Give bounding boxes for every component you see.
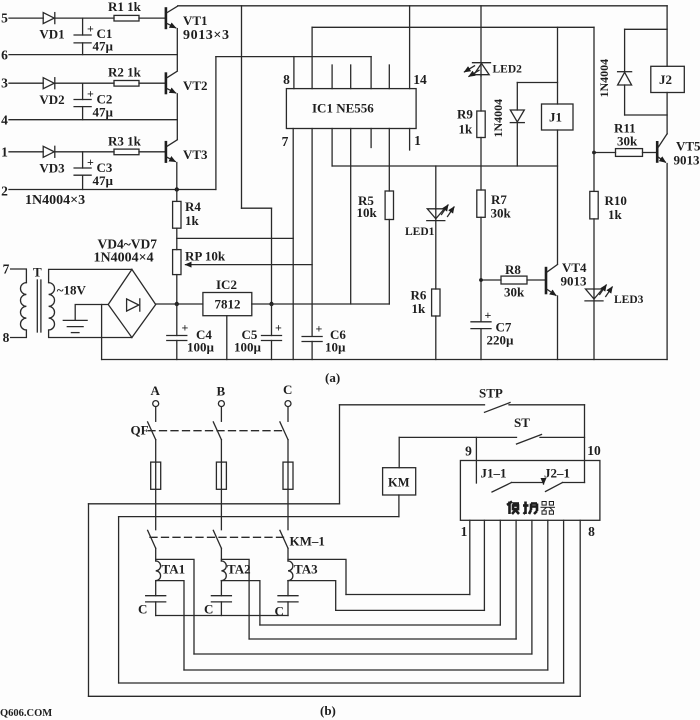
wire row3 input: [9, 82, 43, 84]
switch STP: [340, 386, 585, 413]
wire phase C to TA3: [287, 548, 289, 561]
svg-text:Q606.COM: Q606.COM: [0, 708, 52, 719]
svg-text:9013: 9013: [561, 274, 588, 289]
svg-text:9013: 9013: [674, 153, 700, 168]
wire bridge left to ground: [75, 305, 108, 320]
fuse FU B: [216, 462, 226, 489]
wire IC2 output +12V: [252, 303, 389, 305]
capacitor C6: [302, 322, 346, 360]
svg-text:C: C: [138, 602, 147, 617]
wire J2 bottom: [666, 93, 668, 134]
svg-text:VD2: VD2: [39, 92, 64, 107]
svg-text:TA3: TA3: [294, 562, 318, 577]
wire row1 input: [9, 151, 43, 153]
resistor R7: [477, 190, 512, 322]
svg-text:1N4004×4: 1N4004×4: [94, 251, 154, 266]
svg-text:TA1: TA1: [162, 562, 186, 577]
wire bridge output to IC2: [156, 303, 203, 305]
wire VT3 emitter down: [176, 163, 178, 190]
contactor coil KM box: [383, 468, 416, 495]
wire TA1 bottom tap to pin6: [184, 669, 548, 671]
contact KM-1 dashed link: [150, 536, 288, 538]
svg-text:7: 7: [282, 134, 289, 149]
wire phase C upper: [287, 407, 289, 422]
wire row2 riser to y56: [215, 57, 217, 190]
LED LED1: [405, 205, 454, 289]
svg-text:14: 14: [413, 72, 427, 87]
node A terminal: [151, 383, 161, 407]
wire IC1 bottom pin f to R5: [388, 129, 390, 192]
wire phase A to fuse: [155, 440, 157, 462]
svg-text:3: 3: [1, 76, 8, 91]
wire row5 input: [9, 17, 43, 19]
capacitor C phase C: [275, 581, 299, 619]
svg-text:1k: 1k: [412, 301, 427, 316]
svg-text:VD4~VD7: VD4~VD7: [98, 237, 158, 252]
wire TA3 bottom tap to pin2: [336, 609, 485, 611]
diode VD8 J1 parallel: [510, 83, 524, 167]
svg-text:+: +: [87, 22, 94, 36]
wire R4 bottom to IC1 pin: [177, 237, 293, 239]
svg-text:+: +: [87, 87, 94, 101]
wire J2 diode bottom connector: [625, 114, 668, 116]
wire y56 horizontal to IC1: [216, 56, 371, 58]
svg-text:220µ: 220µ: [487, 333, 515, 348]
wire KM coil bottom: [398, 495, 400, 517]
transistor VT2: [166, 71, 208, 94]
node junction R8 tap: [479, 278, 483, 282]
svg-text:10: 10: [587, 443, 601, 458]
protector box: [460, 461, 600, 521]
wire TA3 bottom tap: [288, 581, 336, 611]
wire TA3 top tap: [288, 559, 346, 594]
wire LED2 branch from rail: [480, 6, 482, 76]
wire IC1 bottom pin e stub: [370, 129, 372, 148]
wire pin9 riser: [475, 437, 477, 483]
svg-text:R10: R10: [605, 193, 627, 208]
svg-text:8: 8: [588, 524, 595, 539]
regulator IC2 7812: [203, 277, 252, 316]
wire J1 diode top connector: [517, 82, 557, 84]
switch QF pole A: [148, 422, 156, 440]
node B terminal: [217, 384, 226, 407]
wire primary top: [11, 269, 27, 283]
svg-text:+: +: [87, 155, 94, 169]
svg-text:7812: 7812: [215, 297, 241, 312]
wire protector pin7: [563, 520, 565, 683]
svg-text:R8: R8: [505, 262, 521, 277]
svg-text:J2–1: J2–1: [544, 466, 570, 481]
wire J relay line y166: [332, 165, 557, 167]
svg-text:J1–1: J1–1: [481, 466, 507, 481]
svg-text:30k: 30k: [504, 285, 525, 300]
wire IC2 ground pin: [226, 316, 228, 360]
resistor R2: [108, 65, 165, 87]
resistor R10: [590, 191, 627, 289]
svg-text:VT5: VT5: [676, 139, 700, 154]
relay J1 box: [542, 104, 574, 130]
current transformer TA1: [156, 561, 185, 581]
wire secondary bottom to bridge: [49, 330, 132, 338]
wire phase A upper: [155, 407, 157, 422]
fuse FU C: [283, 462, 293, 489]
diode VD9 J2 parallel: [618, 29, 632, 115]
wire row4: [9, 119, 177, 121]
svg-text:IC2: IC2: [216, 277, 237, 292]
wire IC1 bottom pin b upper: [311, 129, 313, 336]
svg-text:8: 8: [283, 72, 290, 87]
svg-text:1: 1: [1, 145, 8, 160]
contact J1-1: [481, 466, 544, 493]
wire IC1 bottom pin a to ground rail: [292, 129, 294, 360]
svg-text:30k: 30k: [491, 206, 512, 221]
diode VD1: [39, 13, 64, 42]
node junction RP bottom: [175, 302, 179, 306]
svg-text:TA2: TA2: [227, 562, 251, 577]
wire phase B fuse to KM-1: [220, 489, 222, 529]
wire phase C to fuse: [287, 440, 289, 462]
switch ST: [399, 415, 584, 444]
svg-text:2: 2: [1, 184, 8, 199]
wire J2 drop from rail: [666, 6, 668, 67]
transistor VT4: [546, 260, 587, 295]
switch QF dashed link: [148, 430, 285, 432]
wire phase B upper: [220, 407, 222, 422]
svg-text:+: +: [485, 308, 492, 322]
svg-text:47µ: 47µ: [93, 173, 114, 188]
capacitor C1: [74, 18, 113, 55]
switch QF pole C: [280, 422, 288, 440]
svg-text:+: +: [316, 322, 323, 336]
wire protector pin2: [483, 520, 485, 610]
contact KM-1 pole A: [148, 530, 156, 548]
wire IC1 bottom pin d: [350, 129, 352, 305]
switch QF pole B: [213, 422, 221, 440]
resistor R11: [614, 121, 656, 157]
wire KM coil top riser: [398, 437, 400, 467]
wire RP bottom: [176, 275, 178, 304]
wire jog to C5 branch: [242, 207, 272, 209]
svg-text:QF: QF: [131, 423, 149, 438]
wire R9 bottom through y166 to R7: [480, 138, 482, 191]
LED LED2: [465, 63, 523, 111]
svg-text:~18V: ~18V: [57, 283, 87, 298]
wire protector pin3: [499, 520, 501, 625]
wire VD3 to R3: [55, 151, 114, 153]
svg-text:A: A: [151, 383, 161, 398]
svg-text:R9: R9: [457, 107, 473, 122]
wire IC1 top pin g to rail: [409, 6, 411, 89]
potentiometer RP: [173, 249, 313, 275]
svg-text:VT2: VT2: [183, 78, 208, 93]
capacitor C5: [234, 304, 282, 360]
wire VT1 emitter to VT2 collector: [176, 29, 178, 71]
svg-text:C: C: [275, 604, 284, 619]
resistor R8: [501, 262, 545, 300]
current transformer TA2: [221, 561, 250, 581]
svg-text:(a): (a): [325, 370, 340, 385]
svg-text:6: 6: [1, 48, 8, 63]
wire IC1 top pin c stub: [331, 65, 333, 89]
svg-text:1k: 1k: [185, 213, 200, 228]
wire VT4 emitter to rail: [557, 296, 559, 360]
transformer core: [33, 265, 42, 333]
wire J2 diode top connector: [625, 28, 668, 30]
resistor R1: [108, 0, 165, 21]
svg-text:100µ: 100µ: [234, 340, 262, 355]
wire IC1 top pin f stub: [388, 65, 390, 89]
LED LED3: [585, 285, 644, 360]
wire rail drop x241.5: [241, 6, 243, 208]
wire protector pin5: [531, 520, 533, 654]
resistor R3: [108, 134, 165, 155]
wire KM return drop: [118, 517, 120, 683]
wire STP left riser: [339, 405, 341, 504]
contact KM-1 pole B: [213, 530, 221, 548]
transistor VT1: [166, 6, 230, 43]
wire VD1 to R1: [55, 17, 114, 19]
svg-text:RP 10k: RP 10k: [185, 249, 226, 264]
svg-text:47µ: 47µ: [93, 105, 114, 120]
diode VD3: [39, 146, 65, 175]
wire TA3 top tap to pin1: [346, 594, 470, 596]
wire phase A to TA1: [155, 548, 157, 561]
svg-text:C: C: [283, 382, 292, 397]
svg-text:KM–1: KM–1: [290, 534, 325, 549]
wire IC1 bottom pin c: [331, 129, 333, 167]
transformer T primary winding: [20, 283, 26, 330]
svg-text:J2: J2: [659, 72, 672, 87]
svg-text:LED3: LED3: [614, 294, 644, 306]
fuse FU A: [151, 462, 161, 489]
wire row2: [9, 189, 216, 191]
wire outer left drop: [88, 504, 90, 697]
node junction VT3 emitter: [175, 187, 179, 191]
svg-text:R1 1k: R1 1k: [108, 0, 142, 14]
svg-text:1N4004: 1N4004: [491, 99, 505, 138]
contact KM-1 pole C: [280, 530, 288, 548]
wire VT2 emitter to VT3 collector: [176, 94, 178, 139]
svg-text:T: T: [33, 265, 42, 280]
svg-text:10k: 10k: [357, 205, 378, 220]
diode VD2: [39, 78, 64, 107]
wire VD2 to R2: [55, 82, 114, 84]
wire R4 bottom: [176, 228, 178, 249]
capacitor C4: [167, 304, 215, 360]
svg-text:B: B: [217, 384, 226, 399]
svg-text:1k: 1k: [608, 207, 623, 222]
resistor R5: [357, 191, 394, 304]
wire IC1 bottom pin g stub: [409, 129, 411, 151]
wire R11 tap: [594, 152, 616, 154]
svg-text:100µ: 100µ: [187, 340, 215, 355]
transistor VT5: [657, 134, 700, 168]
svg-text:1N4004×3: 1N4004×3: [25, 193, 85, 208]
node junction R11 tap: [592, 151, 596, 155]
svg-text:R4: R4: [185, 199, 201, 214]
wire R8 tap: [481, 279, 501, 281]
wire phase B to fuse: [220, 440, 222, 462]
svg-text:LED1: LED1: [405, 226, 435, 238]
svg-text:1: 1: [414, 133, 421, 148]
svg-text:9: 9: [465, 444, 472, 459]
svg-text:J1: J1: [549, 110, 562, 125]
wire TA2 bottom tap: [221, 581, 260, 625]
wire secondary top to bridge: [49, 269, 132, 282]
bridge rectifier VD4-VD7: [108, 269, 156, 337]
svg-text:VD1: VD1: [39, 27, 64, 42]
wire outer bottom to pin8: [89, 695, 581, 697]
svg-text:KM: KM: [388, 476, 410, 490]
wire KM return bottom to pin7: [119, 682, 564, 684]
svg-text:VT1: VT1: [183, 13, 208, 28]
svg-text:10µ: 10µ: [325, 340, 346, 355]
svg-text:IC1 NE556: IC1 NE556: [312, 101, 374, 116]
svg-text:C: C: [204, 602, 213, 617]
wire TA2 top tap to pin4: [249, 638, 516, 640]
wire IC1 top pin e: [370, 57, 372, 89]
op-amp U1 IC1 NE556 box: [286, 89, 416, 129]
wire TA1 top tap: [156, 559, 194, 654]
wire top rail +12V: [178, 5, 667, 7]
transistor VT3: [166, 140, 208, 163]
wire ground line to 0V rail: [101, 305, 103, 360]
wire protector pin4: [515, 520, 517, 639]
wire 0V bottom rail: [102, 359, 668, 361]
wire J1 bottom to VT4 collector: [557, 130, 559, 264]
current transformer TA3: [288, 561, 318, 581]
resistor R9: [457, 107, 485, 138]
capacitor C7: [471, 308, 514, 360]
svg-text:1k: 1k: [459, 122, 474, 137]
svg-text:VD3: VD3: [39, 161, 65, 176]
svg-text:5: 5: [1, 11, 8, 26]
wire VT5 emitter to rail: [666, 164, 668, 360]
capacitor C3: [74, 152, 113, 190]
wire y27 link line: [312, 26, 594, 28]
wire phase A fuse to KM-1: [155, 489, 157, 529]
wire control tap line y504: [89, 503, 340, 505]
svg-text:R3 1k: R3 1k: [108, 134, 142, 149]
resistor R4: [173, 190, 202, 229]
capacitor C phase B: [204, 581, 231, 617]
relay J2 box: [651, 66, 685, 92]
capacitor C2: [74, 83, 113, 120]
wire C5 branch upper: [271, 208, 273, 304]
svg-text:4: 4: [1, 113, 8, 128]
svg-text:1N4004: 1N4004: [597, 59, 611, 98]
wire row6: [9, 54, 177, 56]
wire phase C fuse to KM-1: [287, 489, 289, 529]
svg-text:30k: 30k: [617, 134, 638, 149]
wire IC1 top pin d stub: [350, 65, 352, 89]
label protector chinese: [507, 502, 555, 515]
wire protector pin1: [469, 520, 471, 594]
wire IC1 top pin b: [311, 27, 313, 88]
ground: [63, 320, 87, 332]
svg-text:ST: ST: [514, 415, 530, 430]
contact J2-1: [544, 466, 585, 492]
node C terminal: [283, 382, 292, 407]
svg-text:+: +: [182, 321, 189, 335]
wire TA2 bottom tap to pin3: [260, 624, 500, 626]
svg-text:STP: STP: [479, 386, 503, 401]
svg-text:47µ: 47µ: [93, 39, 114, 54]
svg-text:9013×3: 9013×3: [183, 28, 230, 43]
svg-text:1: 1: [461, 524, 468, 539]
svg-text:R2 1k: R2 1k: [108, 65, 142, 80]
svg-text:7: 7: [3, 262, 10, 277]
wire LED1 branch: [435, 166, 437, 209]
wire TA2 top tap: [221, 559, 249, 639]
svg-text:VT3: VT3: [183, 147, 208, 162]
wire primary bottom: [11, 330, 27, 338]
transformer T secondary winding: [49, 283, 55, 330]
resistor R6: [411, 288, 441, 360]
wire KM return line y517: [119, 516, 399, 518]
svg-text:(b): (b): [320, 703, 336, 718]
node junction C5 top: [269, 302, 273, 306]
wire TA1 top tap to pin5: [194, 653, 532, 655]
wire capacitor common line: [156, 615, 288, 617]
wire TA1 bottom tap: [156, 581, 184, 670]
wire protector pin6: [547, 520, 549, 670]
wire R10 branch x594: [593, 27, 595, 191]
wire protector pin8: [579, 520, 581, 696]
capacitor C phase A: [138, 581, 166, 617]
svg-text:+: +: [275, 321, 282, 335]
svg-text:LED2: LED2: [493, 64, 523, 76]
svg-text:8: 8: [3, 330, 10, 345]
wire pin10 riser: [584, 405, 586, 483]
wire J1 top drop: [557, 27, 559, 104]
wire phase B to TA2: [220, 548, 222, 561]
wire IC1 top pin a: [293, 57, 295, 89]
